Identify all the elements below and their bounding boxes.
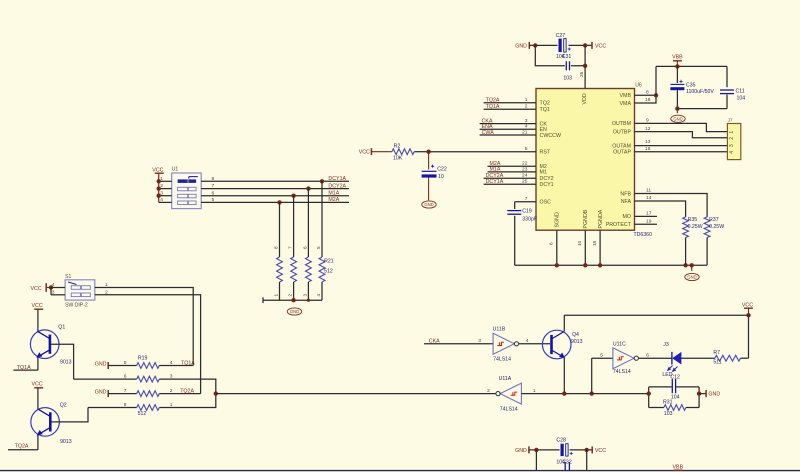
power VBB top [672,55,683,67]
svg-text:22: 22 [522,161,528,167]
svg-text:C35: C35 [686,83,696,89]
resistor R19 element 7-2 TQ2A [108,388,200,396]
svg-text:OUTAM: OUTAM [612,143,631,149]
inverter U11A 74LS14 mirrored [487,376,536,412]
svg-text:PGNDB: PGNDB [583,209,589,228]
svg-text:TQ2A: TQ2A [180,388,194,394]
svg-text:TQ1A: TQ1A [486,104,500,110]
svg-text:Q4: Q4 [572,332,579,338]
node R31 left junction [647,391,651,395]
svg-text:17: 17 [646,211,652,217]
svg-text:14: 14 [646,195,652,201]
IC U6 TD6360 body [536,83,652,239]
wire: net DCY2A to U6 pin 24 [484,173,536,179]
svg-text:15: 15 [592,240,597,246]
capacitor C27 104 [556,33,572,60]
svg-text:R2: R2 [394,143,401,149]
svg-text:330pF: 330pF [522,217,537,223]
svg-text:1100uF/50V: 1100uF/50V [686,89,714,95]
node U1 row 1 junctions [320,179,324,183]
resistor R37 0.25W [704,217,724,265]
wire: GND to VCC with C28 [529,449,592,451]
svg-text:R21: R21 [324,258,334,264]
svg-text:R35: R35 [688,217,698,223]
svg-text:GND: GND [515,448,527,454]
wire: net DCY1A to U6 pin 25 [484,179,536,185]
wire: MO pin 17 stub [635,211,658,217]
svg-text:M1A: M1A [328,191,339,197]
node S1 VCC junction [49,285,53,289]
svg-text:9013: 9013 [571,339,583,345]
svg-text:R19: R19 [138,356,148,362]
inverter U11C 74LS14 [613,341,639,375]
wire: GND to VCC top rail with C27 [529,44,592,46]
wire: ground rail under U6 [515,264,707,266]
resistor R35 0.25W [683,217,703,265]
svg-text:16: 16 [645,146,651,152]
wire: VCC down to R7 [748,315,750,358]
wire: U1 row 1 to net DCY1A [159,176,349,182]
power VCC right of C28 [592,446,606,454]
node C28 left junction [534,448,538,452]
wire: PGNDA pin 15 to ground rail [592,230,600,265]
svg-text:8: 8 [212,176,215,182]
wire: U11C output pin 6 to LED [638,353,672,359]
power VCC left of S1 [31,283,52,292]
ground GND at R19 pin 5 [95,362,108,370]
wire: net ENA to U6 pin 4 [480,124,536,130]
svg-text:PROTECT: PROTECT [606,222,632,228]
svg-text:U11C: U11C [613,341,626,347]
svg-text:5: 5 [212,197,215,203]
power VCC lower right [742,302,753,315]
U6 bottom pin names SGND PGNDB PGNDA [555,209,604,228]
ground GND below C22 [422,201,436,208]
node U1 row 2 junctions [306,186,310,190]
resistor R7 511 [713,350,748,365]
wire: S1 pin 2 to TQ2A [95,289,201,393]
svg-text:11: 11 [646,188,651,194]
svg-text:18: 18 [645,97,651,103]
ground GND below U6 rail [685,265,699,280]
svg-text:GND: GND [687,275,696,280]
svg-text:4: 4 [526,338,529,344]
svg-text:CWCCW: CWCCW [540,133,561,139]
svg-text:VCC: VCC [152,167,163,173]
svg-text:GND: GND [424,202,433,207]
node VCC bus dots at U1 [157,179,161,198]
svg-text:0.25W: 0.25W [709,224,724,230]
svg-text:C27: C27 [556,33,566,39]
wire: Q1 emitter to TQ1A stub [13,357,38,371]
wire: net CWA to U6 pin 21 [480,129,536,135]
svg-text:R31: R31 [663,399,673,405]
svg-text:VMA: VMA [620,101,632,107]
node RST junction [426,150,430,154]
wire: PGNDB pin 10 to ground rail [577,230,585,265]
wire: S1 pin 1 to TQ1A [95,282,193,366]
svg-text:74LS14: 74LS14 [500,406,518,412]
wire: net TQ1A to U6 pin 2 [484,104,536,110]
svg-text:8: 8 [646,90,649,96]
transistor Q4 9013 [542,330,582,359]
svg-text:J7: J7 [728,117,733,122]
transistor Q2 9013 [31,388,72,445]
capacitor C35 1100uF/50V [670,66,714,108]
svg-text:74LS14: 74LS14 [493,357,511,363]
svg-text:24: 24 [522,173,528,179]
resistor network R19 512 [138,356,148,417]
svg-text:6: 6 [124,374,127,380]
svg-text:VBB: VBB [672,55,683,61]
node U1 row 3 junctions [291,194,295,198]
svg-text:104: 104 [737,95,746,101]
wire: net M1A to U6 pin 23 [488,166,537,172]
svg-text:103: 103 [664,411,673,417]
svg-text:DCY2A: DCY2A [328,183,346,189]
wire: VBB rail [656,65,727,67]
svg-text:4: 4 [160,197,163,203]
svg-text:GND: GND [290,309,299,314]
wire: OUTAP pin 16 to J7 pin 4 [635,146,728,152]
svg-text:9: 9 [646,118,649,124]
svg-text:DCY1A: DCY1A [486,179,504,185]
svg-text:7: 7 [288,246,293,249]
svg-text:8: 8 [124,402,127,408]
node C28 right junction [585,448,589,452]
wire: NFA pin 14 to R35 [635,195,686,217]
switch U1 SW DIP-4 body [172,166,202,208]
wire: OUTBM pin 9 to J7 pin 1 [635,118,728,132]
node C27 right junction [583,43,587,47]
svg-text:DCY1: DCY1 [540,182,554,188]
resistor R31 103 [649,399,699,417]
ground GND below R21 [287,308,301,315]
svg-text:1: 1 [729,131,735,134]
wire: C35 C11 bottom link [677,108,727,110]
svg-text:J3: J3 [663,342,669,348]
wire: net CKA to U6 pin 3 [480,118,536,124]
connector J7 [727,117,740,159]
svg-text:VCC: VCC [31,286,42,292]
wire: C31 parallel loop [535,45,585,65]
svg-text:4: 4 [525,124,528,130]
svg-text:DCY1A: DCY1A [328,176,346,182]
wire: OUTAM pin 13 to J7 pin 3 [635,139,728,145]
svg-text:VCC: VCC [595,448,606,454]
wire: to GND right of R31 [699,393,706,395]
svg-text:Q2: Q2 [60,403,67,409]
wire: VBB riser from VMB node [655,66,657,95]
svg-text:C32: C32 [562,459,572,465]
wire: VDD drop to U6 [584,66,586,89]
capacitor C19 330pF at OSC [507,202,537,265]
wire: NFB pin 11 to R37 [635,188,708,217]
U6 right pin names [606,93,632,228]
svg-text:R7: R7 [713,350,720,356]
wire: VMB pin 8 to VBB riser [635,90,657,96]
wire: OUTBP pin 12 to J7 pin 2 [635,126,728,138]
node TQ net junction [214,391,218,395]
svg-text:2: 2 [525,104,528,110]
wire: U1 row 2 to net DCY2A [159,183,349,189]
svg-text:SW DIP-2: SW DIP-2 [65,302,88,308]
U6 VDD top pin name [579,71,588,104]
node VBB rail junction [675,64,679,68]
node C35 bottom junction [675,106,679,110]
svg-text:9013: 9013 [60,439,72,445]
inverter U11B 74LS14 [493,327,519,363]
svg-text:3: 3 [525,118,528,124]
svg-text:4: 4 [170,360,173,366]
svg-text:U11A: U11A [499,376,512,382]
wire: OSC pin 7 stub [515,196,536,202]
svg-text:0.25W: 0.25W [688,224,703,230]
node VCC rail corner [746,313,750,317]
wire: riser to U11C pin 5 [592,353,613,359]
wire: Q1 base to R19 pin 6 [51,344,74,379]
svg-text:6: 6 [646,353,649,359]
resistor network R21 512 [274,181,334,300]
ground GND at R19 pin 7 [95,390,108,398]
svg-text:8: 8 [274,246,279,249]
wire: Q2 base to R19 pin 8 [51,408,88,422]
wire: U1 row 4 to net M2A [159,197,349,203]
svg-text:2: 2 [288,294,293,297]
svg-text:3: 3 [478,338,481,344]
wire: U11B output pin 4 to Q4 base [519,338,551,344]
svg-text:5: 5 [525,146,528,152]
svg-text:MO: MO [622,214,631,220]
transistor Q1 9013 [30,309,71,365]
svg-text:1: 1 [274,294,279,297]
svg-text:10: 10 [577,240,582,246]
wire: U1 row 3 to net M1A [159,190,349,196]
wire: LED to R7 [681,357,714,359]
svg-text:TQ1A: TQ1A [17,365,31,371]
svg-text:6: 6 [549,242,554,245]
switch S1 SW DIP-2 body [65,274,95,308]
wire: Q2 emitter to TQ2A stub [8,435,38,450]
wire: net TQ2A to U6 pin 1 [484,97,536,103]
wire: S1 left pins to VCC [51,282,65,295]
wire: R21 bottom bus [263,297,322,303]
svg-text:VMB: VMB [620,93,632,99]
svg-text:OUTBP: OUTBP [613,129,632,135]
svg-text:TD6360: TD6360 [634,232,653,238]
node VDD drop junction [583,64,587,68]
svg-text:PGNDA: PGNDA [598,209,604,228]
wire: U11C input riser [591,358,593,393]
wire: Q4 emitter down [563,358,565,394]
svg-text:511: 511 [713,360,721,366]
power VCC left of R2 [359,148,372,155]
svg-text:12: 12 [645,126,651,132]
svg-text:7: 7 [124,388,127,394]
svg-text:3: 3 [729,144,735,147]
svg-text:OUTBM: OUTBM [612,121,631,127]
capacitor C11 104 [720,66,745,108]
power VCC above Q2 [32,381,44,387]
power VCC right of C27 [592,42,606,49]
svg-text:VDD: VDD [582,93,588,104]
svg-text:TQ1A: TQ1A [181,360,195,366]
power VBB bottom right [673,465,684,471]
LED J3 [662,342,681,378]
svg-text:6: 6 [302,246,307,249]
capacitor C28 104 [556,438,572,466]
svg-text:CKA: CKA [429,339,440,345]
wire: sheet bottom border [0,470,800,472]
svg-text:5: 5 [316,246,321,249]
svg-text:C28: C28 [556,438,566,444]
ground GND left of C28 [515,446,529,454]
svg-text:VCC: VCC [32,303,43,309]
capacitor C12 104 with R31 parallel [649,374,699,407]
wire: net M2A to U6 pin 22 [488,161,537,167]
capacitor C31 103 [563,61,572,81]
svg-text:C12: C12 [670,374,680,380]
svg-text:NFB: NFB [620,191,631,197]
svg-text:4: 4 [729,151,735,154]
node R31 right junction [697,391,701,395]
svg-text:TQ2A: TQ2A [486,98,500,104]
svg-text:2: 2 [170,388,173,394]
svg-text:VCC: VCC [595,43,606,49]
svg-text:5: 5 [124,360,127,366]
power VCC above Q1 [32,303,44,309]
svg-text:10K: 10K [393,156,403,162]
wire: long net to U11A [216,393,496,395]
wire: PROTECT pin 19 stub [635,218,658,224]
svg-text:TQ2A: TQ2A [15,444,29,450]
svg-text:2: 2 [729,137,735,140]
svg-text:C22: C22 [437,167,447,173]
svg-text:U1: U1 [172,166,179,172]
svg-text:4: 4 [316,294,321,297]
svg-text:Q1: Q1 [58,324,65,330]
node VMB junction [654,93,658,97]
ground GND right of R31 [706,390,720,398]
svg-text:GND: GND [708,392,720,398]
svg-text:VCC: VCC [359,150,370,156]
svg-text:NFA: NFA [621,199,632,205]
svg-text:2: 2 [487,388,490,394]
svg-text:RST: RST [540,150,551,156]
svg-text:6: 6 [212,190,215,196]
svg-text:C19: C19 [522,208,532,214]
node Q4 emitter junction [562,391,566,395]
svg-text:2: 2 [105,289,108,295]
wire: RST pin 5 from R2 junction [429,146,536,152]
svg-text:GND: GND [95,390,107,396]
wire: VMA pin 18 riser to VMB [635,95,657,103]
svg-text:S1: S1 [65,274,71,280]
svg-text:512: 512 [324,268,333,274]
svg-text:7: 7 [525,196,528,202]
resistor R19 element 8-1 [88,394,216,411]
svg-text:23: 23 [522,166,528,172]
node U1 row 4 junctions [277,200,281,204]
svg-text:C11: C11 [736,89,745,95]
svg-text:103: 103 [563,76,572,82]
svg-text:3: 3 [170,374,173,380]
svg-text:512: 512 [138,411,147,417]
svg-text:R37: R37 [709,217,719,223]
svg-text:4: 4 [52,282,55,288]
svg-text:U11B: U11B [493,327,506,333]
svg-text:5: 5 [600,353,603,359]
svg-text:3: 3 [52,289,55,295]
svg-text:VCC: VCC [742,302,753,308]
svg-text:GND: GND [515,43,527,49]
svg-text:SGND: SGND [555,212,561,227]
svg-text:OSC: OSC [540,200,552,206]
svg-text:21: 21 [522,129,528,135]
svg-text:C31: C31 [562,54,572,60]
svg-text:TQ2: TQ2 [540,101,550,107]
capacitor C22 10 [422,152,447,201]
svg-text:13: 13 [645,139,651,145]
svg-text:19: 19 [646,218,652,224]
net label CKA wire to U11B [424,338,493,344]
node U11C input junction [590,391,594,395]
svg-text:25: 25 [522,179,528,185]
svg-text:CWA: CWA [482,130,495,136]
power VCC above U1 [152,167,163,202]
svg-text:TQ1: TQ1 [540,107,550,113]
svg-text:VCC: VCC [32,381,43,387]
wire: U11A pin 1 across [521,393,648,395]
svg-text:M1A: M1A [490,167,501,173]
svg-text:3: 3 [302,294,307,297]
wire: VCC rail from Q4 collector [564,314,748,316]
resistor R19 element 5-4 TQ1A [108,360,195,368]
svg-text:10: 10 [438,174,444,180]
svg-text:1: 1 [105,282,108,288]
svg-text:M2A: M2A [328,197,339,203]
ground GND left of C27 [515,42,529,49]
node C27 left junction [533,43,537,47]
svg-text:GND: GND [673,116,682,121]
svg-text:GND: GND [95,362,107,368]
svg-text:U6: U6 [635,83,642,89]
U6 left pin names [540,101,561,206]
node R21 bus junctions [291,298,310,302]
wire: Q4 collector to VCC rail [563,315,565,331]
svg-text:9013: 9013 [60,359,72,365]
svg-text:1: 1 [525,97,528,103]
svg-text:OUTAP: OUTAP [613,150,631,156]
svg-text:1: 1 [170,402,173,408]
resistor R19 element 6-3 [74,374,216,394]
ground GND below C35 [671,109,685,123]
wire: SGND pin 6 to ground rail [549,230,557,265]
svg-text:7: 7 [212,183,215,189]
node: ground rail junctions [555,263,694,267]
capacitor C32 loop at sheet edge [536,450,586,471]
svg-text:26: 26 [579,71,584,77]
resistor R2 10K [371,143,428,161]
svg-text:74LS14: 74LS14 [613,369,631,375]
svg-text:M1: M1 [540,170,547,176]
